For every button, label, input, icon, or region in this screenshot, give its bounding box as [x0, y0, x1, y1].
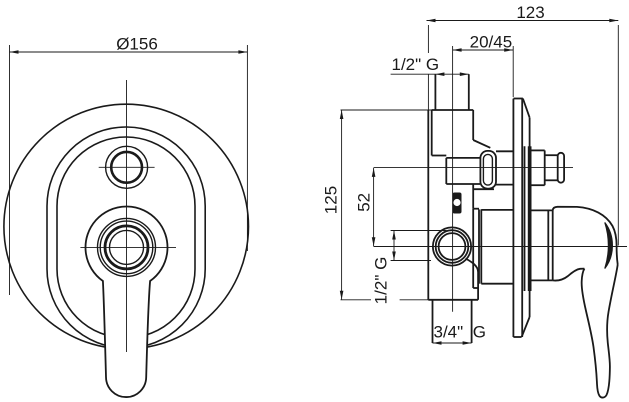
bottom pipe 3/4G walls [432, 300, 434, 343]
lever handle keyhole outline [86, 206, 168, 397]
dimension 20/45 line [453, 46, 514, 97]
centerlines front view [80, 80, 176, 352]
diverter knob outer circle [106, 146, 148, 188]
main horizontal centerline [374, 246, 627, 248]
main cartridge circle ring 1 [98, 218, 156, 276]
svg-text:Ø156: Ø156 [116, 35, 158, 54]
flange front face [512, 99, 514, 337]
top pipe 1/2G walls [434, 74, 436, 110]
flange top back chamfer [523, 99, 530, 118]
body bottom edge [428, 299, 478, 301]
flange top edge [513, 98, 523, 100]
shelf under diverter [473, 188, 494, 190]
extension line 20/45 right [512, 46, 514, 97]
body right wall below diverter [472, 184, 474, 209]
vertical centerline [126, 80, 128, 352]
dimension 1/2G bottom line [391, 231, 447, 261]
body right wall upper [472, 110, 474, 140]
sleeve top [532, 209, 553, 211]
transition diagonal to diverter [473, 140, 490, 148]
escutcheon backplate line [524, 146, 526, 291]
dark shadow strip behind flange [528, 146, 532, 291]
flange bottom edge [513, 336, 521, 338]
handle hub crescent [605, 223, 613, 269]
sleeve bottom [532, 279, 553, 281]
svg-text:20/45: 20/45 [470, 32, 513, 51]
body left step [432, 155, 447, 157]
main cartridge circle ring 2 [100, 221, 153, 274]
extension lines 1/2G bottom [391, 230, 447, 232]
svg-text:G: G [473, 323, 486, 342]
diverter crosshair [99, 166, 155, 168]
knob cylinder 2 [545, 154, 558, 156]
svg-text:125: 125 [322, 186, 341, 214]
svg-text:52: 52 [355, 193, 374, 212]
svg-text:1/2" G: 1/2" G [392, 55, 440, 74]
body outer left wall [427, 110, 429, 300]
diverter boss rounded [480, 151, 496, 189]
dimension 1/2G top [391, 73, 469, 75]
diverter housing [446, 158, 480, 184]
gland nut top [481, 209, 513, 211]
collar front double wall [478, 209, 480, 283]
handle bell [553, 207, 618, 398]
diverter stem to wall [496, 150, 513, 152]
diverter knob thick ring [111, 152, 142, 183]
sleeve ring lines [547, 210, 549, 280]
collar bottom [473, 287, 479, 289]
flange back edge [529, 118, 531, 317]
set screw boss [453, 193, 462, 214]
main cartridge thick ring [105, 226, 148, 269]
dimension 3/4G line [433, 342, 472, 344]
front port boss fillet [466, 259, 479, 273]
dimension D156 [10, 45, 248, 295]
main sleeve cylinder [532, 210, 553, 280]
body top edge [432, 109, 474, 111]
knob cylinder 1 [532, 149, 545, 151]
handle lever blade [582, 265, 618, 398]
wall flange plate [513, 99, 529, 338]
extension lines 125 [341, 109, 474, 111]
diverter horizontal centerline [374, 166, 573, 168]
extension lines 123 [427, 25, 429, 53]
cartridge crosshair [80, 246, 176, 248]
body outline [428, 74, 513, 343]
flange mid line [521, 99, 523, 338]
main cartridge inner circle [110, 230, 144, 264]
plate raised oval inner [57, 137, 195, 338]
svg-text:1/2" G: 1/2" G [372, 257, 391, 305]
dimension 125 line [341, 110, 474, 300]
dimension 123 line [427, 21, 619, 246]
wall plate outer circle [4, 104, 249, 349]
diverter knob end cap [558, 153, 564, 183]
svg-text:123: 123 [516, 3, 544, 22]
body upper left wall [431, 110, 433, 156]
centerlines side view [374, 46, 627, 312]
main valve collar top [473, 208, 479, 210]
gland nut bottom [481, 283, 513, 285]
front port circles [433, 227, 471, 265]
plate raised oval outer [47, 127, 205, 348]
diverter knob cylinders [532, 150, 565, 185]
svg-text:3/4": 3/4" [434, 323, 464, 342]
dimension 52 line [373, 168, 375, 246]
collar rear wall [472, 209, 474, 288]
flange bottom back chamfer [522, 317, 530, 337]
vertical pipe centerline [452, 46, 454, 312]
